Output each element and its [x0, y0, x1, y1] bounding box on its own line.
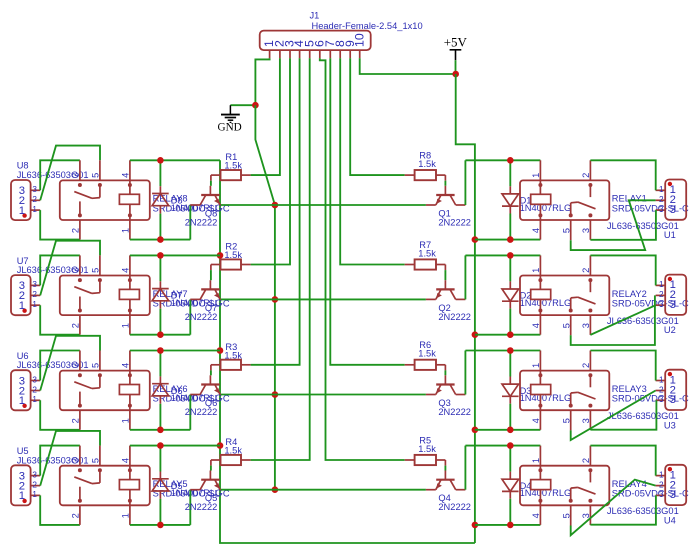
wire +5V bus right side: [456, 74, 475, 543]
svg-text:3: 3: [670, 204, 676, 216]
resistor R3: [211, 360, 251, 371]
junction D1 cathode / +5V rail: [507, 236, 514, 243]
relay RELAY6 SRD-05VDC-SL-C: [60, 351, 150, 430]
junction D3 anode / collector rail: [507, 347, 514, 354]
svg-text:1: 1: [531, 363, 541, 368]
svg-text:5: 5: [91, 268, 101, 273]
RELAY1 pin number labels: [531, 173, 591, 233]
junction D1 anode / collector rail: [507, 157, 514, 164]
label Q5 2N2222: [185, 493, 218, 512]
svg-text:1: 1: [659, 280, 664, 289]
svg-text:1: 1: [531, 458, 541, 463]
wire J1 pin6 to R5 (jogged vertical): [320, 58, 405, 460]
wire row4 right +5V rail: [475, 524, 541, 526]
connector U3 JL636-63503G01: [656, 370, 687, 410]
svg-text:1: 1: [19, 395, 25, 407]
resistor R5: [405, 455, 446, 466]
svg-text:2: 2: [659, 480, 664, 489]
RELAY5 pin number labels: [71, 458, 131, 518]
diode D2 1N4007RLG: [502, 255, 519, 334]
svg-text:2N2222: 2N2222: [185, 502, 218, 512]
U1 pin number labels: [659, 184, 676, 216]
svg-text:1.5k: 1.5k: [224, 250, 242, 260]
J1 pin 6 stub and number: [312, 40, 326, 58]
svg-text:3: 3: [659, 490, 664, 499]
svg-text:4: 4: [121, 268, 131, 273]
wire RELAY2 pin5 to U2 pin2: [571, 295, 655, 345]
wire row2 emitter rail to GND bus: [221, 298, 426, 300]
label R4 value 1.5k: [224, 437, 242, 456]
wire Q1 collector riser: [464, 160, 466, 205]
svg-text:1: 1: [121, 323, 131, 328]
wire Q8 collector riser: [189, 205, 191, 240]
svg-text:1: 1: [659, 470, 664, 479]
svg-text:5: 5: [562, 513, 572, 518]
svg-text:1: 1: [121, 228, 131, 233]
relay RELAY3 SRD-05VDC-SL-C: [520, 351, 609, 431]
svg-text:3: 3: [32, 375, 37, 384]
connector U6 JL636-63503G01: [11, 370, 40, 410]
svg-text:J1: J1: [310, 10, 320, 20]
svg-text:2: 2: [659, 290, 664, 299]
label U6 JL636-63503G01: [17, 351, 89, 370]
svg-text:2: 2: [71, 513, 81, 518]
wire U8 pin2 to RELAY8 pin5: [40, 146, 100, 201]
wire J1 pin3 to R2: [251, 58, 290, 264]
J1 pin 1 stub and number: [262, 40, 276, 58]
label R1 value 1.5k: [224, 152, 242, 171]
svg-text:3: 3: [581, 323, 591, 328]
svg-text:4: 4: [531, 228, 541, 233]
label RELAY7 name/value: [153, 289, 230, 309]
svg-text:1.5k: 1.5k: [418, 248, 436, 258]
wire row1 right collector rail: [465, 159, 540, 161]
label Q4 2N2222: [438, 493, 471, 512]
svg-text:+5V: +5V: [444, 35, 468, 50]
wire RELAY2 pin3 to U2 pin3: [590, 305, 655, 335]
svg-text:1.5k: 1.5k: [224, 161, 242, 171]
svg-text:1: 1: [19, 300, 25, 312]
svg-text:2N2222: 2N2222: [438, 407, 471, 417]
svg-text:3: 3: [71, 458, 81, 463]
J1 pin 3 stub and number: [283, 40, 297, 58]
svg-text:2N2222: 2N2222: [438, 312, 471, 322]
svg-text:4: 4: [121, 173, 131, 178]
RELAY7 pin number labels: [71, 268, 131, 328]
J1 pin 4 stub and number: [292, 40, 306, 58]
U6 pin number labels: [19, 375, 38, 407]
J1 pin 8 stub and number: [333, 40, 347, 58]
wire J1 pin2 to R1: [251, 58, 280, 175]
wire row2 right collector rail: [465, 254, 540, 256]
junction GND node: [252, 102, 259, 109]
junction left +5V bus / row4 left rail: [217, 442, 224, 449]
wire J1 pin7 to R6: [330, 58, 404, 365]
svg-text:3: 3: [71, 363, 81, 368]
svg-text:3: 3: [71, 173, 81, 178]
svg-text:RELAY2: RELAY2: [612, 289, 647, 299]
U4 pin number labels: [659, 469, 676, 501]
wire Q4 collector riser: [464, 446, 466, 490]
diode D5 1N4007RLG: [152, 446, 169, 525]
svg-text:2: 2: [32, 385, 37, 394]
relay RELAY4 SRD-05VDC-SL-C: [520, 446, 609, 526]
svg-text:GND: GND: [218, 121, 242, 133]
connector U1 JL636-63503G01: [656, 180, 687, 220]
J1 pin 7 stub and number: [323, 40, 337, 58]
junction D2 anode / collector rail: [507, 252, 514, 259]
svg-text:2N2222: 2N2222: [438, 217, 471, 227]
wire U6 pin2 to RELAY6 pin5: [40, 336, 100, 391]
junction +5V bus / row4 right rail: [472, 522, 479, 529]
wire R1 to Q8 base: [210, 181, 212, 186]
wire RELAY1 pin3 to U1 pin3: [590, 210, 656, 240]
svg-text:2: 2: [32, 480, 37, 489]
RELAY8 pin number labels: [71, 173, 131, 233]
wire row2 right +5V rail: [475, 334, 541, 336]
wire R3 to Q6 base: [210, 370, 212, 375]
resistor R7: [405, 259, 446, 270]
power +5V symbol: [444, 35, 468, 75]
svg-text:U3: U3: [664, 420, 676, 430]
U2 pin number labels: [659, 279, 676, 311]
svg-text:5: 5: [91, 363, 101, 368]
svg-text:2N2222: 2N2222: [438, 502, 471, 512]
diode D7 1N4007RLG: [152, 255, 169, 334]
connector U2 JL636-63503G01: [656, 275, 687, 315]
wire Q6 collector riser: [189, 395, 191, 430]
RELAY2 pin number labels: [531, 268, 591, 328]
transistor Q4 2N2222: [426, 471, 466, 490]
svg-text:3: 3: [670, 489, 676, 501]
svg-text:2: 2: [32, 195, 37, 204]
label D5 1N4007RLG: [171, 481, 223, 498]
U3 pin number labels: [659, 374, 676, 406]
svg-text:1: 1: [32, 395, 37, 404]
connector J1 Header-Female-2.54_1x10: [260, 31, 371, 50]
wire Q5 collector riser: [189, 490, 191, 525]
connector U8 JL636-63503G01: [11, 180, 40, 220]
wire Q2 collector riser: [464, 255, 466, 299]
svg-text:5: 5: [91, 458, 101, 463]
wire row4 left collector rail: [130, 524, 190, 526]
svg-text:2: 2: [32, 290, 37, 299]
junction D2 cathode / +5V rail: [507, 331, 514, 338]
svg-text:4: 4: [531, 418, 541, 423]
resistor R4: [211, 455, 251, 466]
svg-text:4: 4: [121, 458, 131, 463]
wire row3 left collector rail: [130, 429, 190, 431]
wire R6 to Q3 base: [444, 370, 446, 375]
svg-text:2: 2: [659, 195, 664, 204]
wire RELAY3 pin2 to U3 pin1: [590, 351, 655, 381]
relay RELAY5 SRD-05VDC-SL-C: [60, 446, 150, 525]
wire row1 left collector rail: [130, 239, 190, 241]
junction +5V bus / row1 right rail: [472, 236, 479, 243]
svg-text:2: 2: [71, 418, 81, 423]
wire Q3 collector riser: [464, 351, 466, 395]
transistor Q6 2N2222: [190, 375, 221, 394]
label RELAY1 name/value: [612, 194, 689, 214]
junction D6 cathode / +5V rail: [157, 347, 164, 354]
svg-text:1.5k: 1.5k: [224, 446, 242, 456]
resistor R6: [405, 360, 446, 371]
label D4 1N4007RLG: [520, 481, 572, 498]
wire Q7 collector riser: [189, 299, 191, 334]
diode D4 1N4007RLG: [502, 446, 519, 525]
svg-text:4: 4: [531, 323, 541, 328]
label Q1 2N2222: [438, 209, 471, 228]
label D7 1N4007RLG: [171, 291, 223, 308]
wire RELAY3 pin5 to U3 pin2: [571, 391, 656, 441]
svg-text:U1: U1: [664, 230, 676, 240]
label Q2 2N2222: [438, 303, 471, 322]
connector U4 JL636-63503G01: [656, 465, 687, 505]
wire row1 emitter rail to GND bus: [221, 204, 426, 206]
wire row2 left +5V rail: [130, 254, 220, 256]
wire RELAY3 pin3 to U3 pin3: [590, 400, 656, 429]
label U8 JL636-63503G01: [17, 161, 89, 180]
svg-text:5: 5: [562, 323, 572, 328]
wire J1 pin1 to GND: [255, 58, 269, 105]
svg-text:1: 1: [32, 300, 37, 309]
wire U5 pin1 to RELAY5 pin2: [40, 495, 80, 525]
label R8 value 1.5k: [418, 151, 436, 169]
label Q6 2N2222: [185, 398, 218, 417]
junction GND bus / row2 emitter rail: [272, 296, 279, 303]
label R3 value 1.5k: [224, 342, 242, 361]
U5 pin number labels: [19, 470, 38, 502]
svg-text:2: 2: [581, 363, 591, 368]
wire R8 to Q1 base: [444, 181, 446, 186]
svg-text:4: 4: [121, 363, 131, 368]
wire U8 pin1 to RELAY8 pin2: [40, 210, 80, 240]
svg-text:1: 1: [19, 490, 25, 502]
svg-text:5: 5: [562, 228, 572, 233]
wire RELAY4 pin3 to U4 pin3: [590, 495, 656, 524]
wire row3 right collector rail: [465, 350, 540, 352]
resistor R8: [405, 170, 446, 181]
wire row1 left +5V rail: [130, 159, 220, 161]
svg-text:1: 1: [32, 490, 37, 499]
transistor Q3 2N2222: [426, 375, 466, 394]
svg-text:5: 5: [91, 173, 101, 178]
wire U8 pin3 to RELAY8 pin3: [40, 160, 80, 190]
label RELAY6 name/value: [153, 384, 230, 404]
wire RELAY1 pin2 to U1 pin1: [590, 160, 655, 190]
wire RELAY1 pin5 to U1 pin2: [571, 200, 656, 250]
wire R7 to Q2 base: [444, 270, 446, 280]
label D8 1N4007RLG: [171, 196, 223, 213]
junction D4 cathode / +5V rail: [507, 522, 514, 529]
diode D3 1N4007RLG: [502, 351, 519, 430]
wire row4 left +5V rail: [130, 445, 220, 447]
svg-text:3: 3: [32, 280, 37, 289]
U7 pin number labels: [19, 280, 38, 312]
relay RELAY7 SRD-05VDC-SL-C: [60, 255, 150, 334]
wire J1 pin5 to R4: [251, 58, 310, 460]
U8 pin number labels: [19, 185, 38, 217]
wire R4 to Q5 base: [210, 466, 212, 471]
wire row3 right +5V rail: [475, 429, 541, 431]
junction D3 cathode / +5V rail: [507, 427, 514, 434]
svg-text:2N2222: 2N2222: [185, 407, 218, 417]
wire RELAY4 pin2 to U4 pin1: [590, 446, 655, 476]
svg-text:1.5k: 1.5k: [418, 444, 436, 454]
J1 pin 9 stub and number: [343, 40, 357, 58]
label D2 1N4007RLG: [520, 291, 572, 308]
svg-text:1: 1: [531, 268, 541, 273]
svg-text:1: 1: [659, 375, 664, 384]
wire R5 to Q4 base: [444, 466, 446, 471]
label RELAY5 name/value: [153, 479, 230, 499]
label Q3 2N2222: [438, 398, 471, 417]
wire U6 pin1 to RELAY6 pin2: [40, 400, 80, 430]
transistor Q2 2N2222: [426, 280, 466, 299]
connector U5 JL636-63503G01: [11, 465, 40, 505]
wire R2 to Q7 base: [210, 270, 212, 280]
resistor R2: [211, 259, 251, 270]
junction D6 anode / collector rail: [157, 427, 164, 434]
diode D6 1N4007RLG: [152, 351, 169, 430]
svg-text:3: 3: [32, 185, 37, 194]
svg-text:2N2222: 2N2222: [185, 312, 218, 322]
wire J1 pin4 to R3: [251, 58, 300, 365]
svg-text:3: 3: [659, 300, 664, 309]
transistor Q7 2N2222: [190, 280, 221, 299]
svg-text:2: 2: [71, 323, 81, 328]
svg-text:4: 4: [531, 513, 541, 518]
junction +5V bus / row2 right rail: [472, 331, 479, 338]
label R7 value 1.5k: [418, 240, 436, 258]
RELAY3 pin number labels: [531, 363, 591, 423]
label RELAY2 name/value: [612, 289, 689, 309]
junction D8 anode / collector rail: [157, 236, 164, 243]
J1 pin 5 stub and number: [302, 40, 316, 58]
label D6 1N4007RLG: [171, 386, 223, 403]
label U2 JL636-63503G01: [607, 316, 679, 335]
label D3 1N4007RLG: [520, 386, 572, 403]
label U7 JL636-63503G01: [17, 256, 89, 275]
wire GND bus: [255, 105, 275, 490]
label D1 1N4007RLG: [520, 196, 572, 213]
relay RELAY8 SRD-05VDC-SL-C: [60, 160, 150, 239]
svg-text:3: 3: [670, 394, 676, 406]
svg-text:3: 3: [670, 299, 676, 311]
svg-text:SRD-05VDC-SL-C: SRD-05VDC-SL-C: [612, 203, 689, 213]
junction GND bus / row3 emitter rail: [272, 391, 279, 398]
label R5 value 1.5k: [418, 435, 436, 453]
wire U5 pin3 to RELAY5 pin3: [40, 446, 80, 476]
svg-text:SRD-05VDC-SL-C: SRD-05VDC-SL-C: [612, 394, 689, 404]
svg-text:1.5k: 1.5k: [418, 159, 436, 169]
junction GND bus / row4 emitter rail: [272, 486, 279, 493]
junction +5V bus / row3 right rail: [472, 427, 479, 434]
wire U7 pin1 to RELAY7 pin2: [40, 305, 80, 335]
svg-text:1.5k: 1.5k: [224, 350, 242, 360]
label U3 JL636-63503G01: [607, 411, 679, 430]
junction D7 anode / collector rail: [157, 331, 164, 338]
junction D5 anode / collector rail: [157, 522, 164, 529]
connector U7 JL636-63503G01: [11, 275, 40, 315]
label J1 name/value: [310, 10, 423, 31]
junction GND bus / row1 emitter rail: [272, 202, 279, 209]
svg-text:U4: U4: [664, 515, 676, 525]
label U4 JL636-63503G01: [607, 506, 679, 525]
junction D4 anode / collector rail: [507, 442, 514, 449]
label U1 JL636-63503G01: [607, 221, 679, 240]
wire U7 pin2 to RELAY7 pin5: [40, 241, 100, 296]
svg-text:3: 3: [659, 205, 664, 214]
RELAY6 pin number labels: [71, 363, 131, 423]
svg-text:2: 2: [659, 385, 664, 394]
svg-text:3: 3: [659, 395, 664, 404]
wire row1 right +5V rail: [475, 239, 541, 241]
svg-text:2: 2: [581, 458, 591, 463]
wire U6 pin3 to RELAY6 pin3: [40, 351, 80, 381]
label RELAY4 name/value: [612, 479, 689, 499]
transistor Q8 2N2222: [190, 186, 221, 205]
wire row4 emitter rail to GND bus: [221, 489, 426, 491]
J1 pin 10 stub and number: [352, 33, 366, 58]
wire row2 left collector rail: [130, 334, 190, 336]
svg-text:RELAY3: RELAY3: [612, 384, 647, 394]
junction D8 cathode / +5V rail: [157, 157, 164, 164]
transistor Q5 2N2222: [190, 471, 221, 490]
label U5 JL636-63503G01: [17, 446, 89, 465]
wire J1 pin8 to R7: [340, 58, 405, 264]
junction D5 cathode / +5V rail: [157, 442, 164, 449]
svg-text:1: 1: [121, 513, 131, 518]
wire row3 emitter rail to GND bus: [221, 394, 426, 396]
label Q7 2N2222: [185, 303, 218, 322]
label RELAY8 name/value: [153, 194, 230, 214]
wire row4 right collector rail: [465, 445, 540, 447]
svg-text:1: 1: [121, 418, 131, 423]
transistor Q1 2N2222: [426, 186, 466, 205]
relay RELAY2 SRD-05VDC-SL-C: [520, 255, 609, 335]
label R2 value 1.5k: [224, 242, 242, 261]
wire U7 pin3 to RELAY7 pin3: [40, 255, 80, 285]
svg-text:1: 1: [531, 173, 541, 178]
diode D1 1N4007RLG: [502, 160, 519, 239]
svg-text:3: 3: [581, 418, 591, 423]
wire row3 left +5V rail: [130, 350, 220, 352]
svg-text:5: 5: [562, 418, 572, 423]
J1 pin 2 stub and number: [273, 40, 287, 58]
wire J1 pin10 to +5V: [360, 58, 456, 74]
wire RELAY4 pin5 to U4 pin2: [571, 480, 656, 536]
label Q8 2N2222: [185, 209, 218, 228]
wire RELAY2 pin2 to U2 pin1: [590, 255, 655, 285]
svg-text:10: 10: [352, 33, 366, 47]
label R6 value 1.5k: [418, 340, 436, 358]
svg-text:2N2222: 2N2222: [185, 217, 218, 227]
svg-text:3: 3: [71, 268, 81, 273]
svg-text:3: 3: [581, 228, 591, 233]
wire U5 pin2 to RELAY5 pin5: [40, 431, 100, 486]
ground GND symbol: [218, 105, 256, 133]
svg-text:U2: U2: [664, 325, 676, 335]
junction D7 cathode / +5V rail: [157, 252, 164, 259]
diode D8 1N4007RLG: [152, 160, 169, 239]
resistor R1: [211, 170, 251, 181]
svg-text:2: 2: [581, 268, 591, 273]
label RELAY3 name/value: [612, 384, 689, 404]
junction +5V node: [452, 71, 459, 78]
wire J1 pin9 to R8: [350, 58, 405, 175]
svg-text:2: 2: [581, 173, 591, 178]
